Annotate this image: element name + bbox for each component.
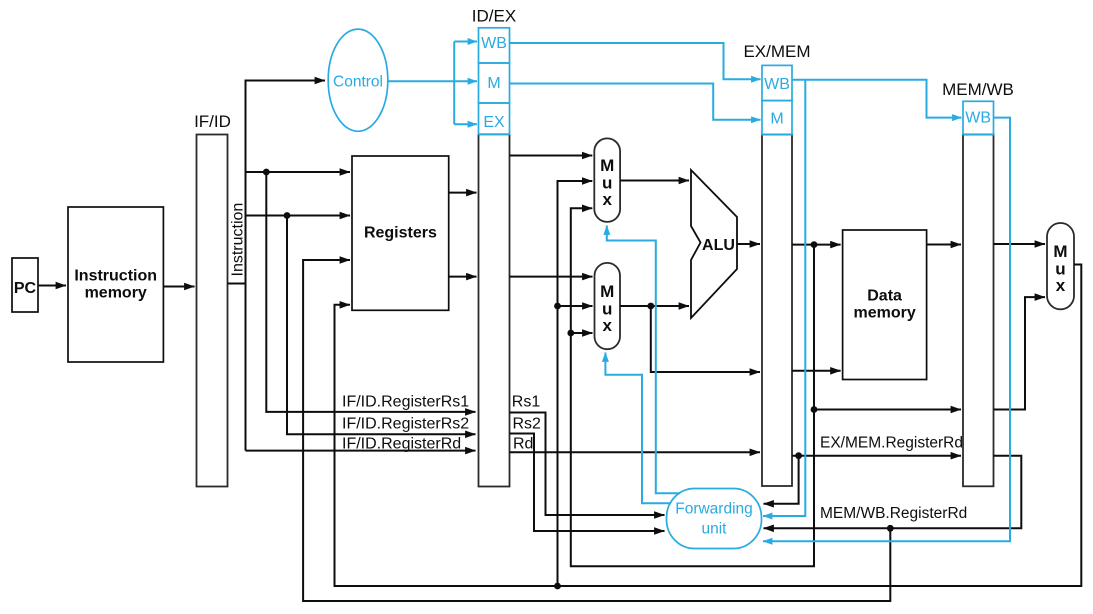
wire EX/MEM.RegisterRd to MEM/WB — [792, 455, 961, 457]
wire PC to instruction memory — [38, 285, 66, 287]
svg-text:M: M — [600, 156, 614, 175]
svg-text:MEM/WB.RegisterRd: MEM/WB.RegisterRd — [820, 505, 967, 522]
EX/MEM WB control box — [762, 65, 792, 100]
wire write-back feedback to mux M1 input 2 — [558, 181, 593, 586]
junction feedback to mux M2 input 3 tap — [567, 330, 574, 337]
svg-text:EX: EX — [483, 114, 505, 131]
wire control split vertical — [453, 42, 455, 125]
svg-text:IF/ID.RegisterRs2: IF/ID.RegisterRs2 — [342, 415, 469, 432]
EX/MEM pipeline register — [762, 135, 792, 486]
mux M3 (write-back) — [1047, 223, 1074, 309]
wire ID/EX M to EX/MEM M — [510, 84, 761, 120]
svg-text:Rs1: Rs1 — [512, 394, 541, 411]
svg-text:IF/ID.RegisterRd: IF/ID.RegisterRd — [342, 435, 461, 452]
svg-text:unit: unit — [702, 521, 728, 538]
wire Rs1 field to forwarding unit — [510, 413, 665, 516]
control unit oval — [328, 29, 388, 131]
wire ForwardB control to mux M2 — [605, 353, 671, 504]
svg-text:x: x — [1056, 276, 1066, 295]
svg-text:M: M — [770, 111, 783, 128]
MEM/WB WB control box — [963, 101, 994, 134]
svg-text:memory: memory — [853, 305, 915, 322]
junction EX/MEM.RegisterRd tap — [795, 452, 802, 459]
junction instruction rs1 tap — [263, 169, 270, 176]
junction EX/MEM ALU result tap — [811, 241, 818, 248]
svg-text:Instruction: Instruction — [229, 203, 246, 277]
wire EX/MEM ALU result to data memory — [792, 244, 841, 246]
svg-text:x: x — [602, 316, 612, 335]
wire MEM/WB ALU result to mux M3 — [994, 297, 1046, 409]
IF/ID pipeline register — [197, 135, 228, 487]
ID/EX M control box — [479, 63, 510, 103]
svg-text:memory: memory — [85, 285, 147, 302]
wire registers read data 1 to ID/EX — [449, 192, 477, 194]
svg-text:M: M — [1053, 242, 1067, 261]
wire control to ID/EX EX — [454, 123, 477, 125]
wire data memory read data to MEM/WB — [927, 244, 961, 246]
junction instruction rs2 tap — [284, 212, 291, 219]
wire ALU result feedback to mux M1 input 3 — [571, 208, 814, 566]
wire ID/EX to mux M1 input 1 — [510, 155, 593, 157]
PC box — [12, 258, 38, 312]
wire IF/ID.RegisterRs2 to ID/EX — [287, 216, 476, 435]
wire ForwardA control to mux M1 — [607, 226, 680, 494]
wire read register 1 — [246, 171, 351, 173]
svg-text:WB: WB — [764, 76, 790, 93]
registers box — [352, 156, 449, 310]
wire write-back mux output loop to registers write data — [335, 265, 1082, 587]
wire IF/ID.RegisterRs1 to ID/EX — [266, 172, 475, 412]
svg-text:IF/ID: IF/ID — [194, 112, 231, 131]
svg-text:Registers: Registers — [364, 225, 437, 242]
svg-text:IF/ID.RegisterRs1: IF/ID.RegisterRs1 — [342, 394, 469, 411]
svg-text:ID/EX: ID/EX — [472, 7, 516, 26]
ID/EX EX control box — [479, 103, 510, 134]
wire Rs2 field to forwarding unit — [510, 434, 665, 532]
svg-text:Forwarding: Forwarding — [675, 501, 753, 518]
svg-text:M: M — [487, 75, 500, 92]
mux M1 (ALU input A) — [594, 138, 620, 222]
wire EX/MEM.RegisterRd to forwarding unit — [764, 456, 799, 504]
svg-text:Control: Control — [333, 74, 383, 91]
svg-text:EX/MEM: EX/MEM — [743, 42, 810, 61]
wire registers read data 2 to ID/EX — [449, 276, 477, 278]
wire EX/MEM write data to data memory — [792, 370, 841, 372]
wire control to ID/EX M — [388, 80, 477, 82]
svg-text:Rd: Rd — [513, 435, 533, 452]
wire write register loop to registers — [303, 260, 890, 601]
svg-text:MEM/WB: MEM/WB — [942, 80, 1014, 99]
wire Rd field to EX/MEM — [510, 451, 761, 453]
wire instruction memory to IF/ID — [163, 286, 194, 288]
svg-text:M: M — [600, 282, 614, 301]
wire store data to EX/MEM — [651, 306, 760, 372]
svg-text:WB: WB — [481, 35, 507, 52]
forwarding unit — [667, 489, 762, 549]
wire ID/EX to mux M2 input 1 — [510, 276, 593, 278]
wire EX/MEM WB to MEM/WB WB — [792, 80, 962, 118]
junction write-back feedback tap — [554, 583, 561, 590]
svg-text:Data: Data — [867, 288, 902, 305]
MEM/WB pipeline register — [963, 135, 994, 487]
wire write-back feedback to mux M2 input 2 — [558, 305, 593, 307]
wire ALU result to EX/MEM — [737, 243, 760, 245]
data memory box — [843, 230, 927, 380]
ID/EX WB control box — [479, 28, 510, 63]
svg-text:WB: WB — [965, 110, 991, 127]
mux M2 (ALU input B) — [595, 263, 621, 349]
svg-text:Instruction: Instruction — [74, 268, 157, 285]
wire EX/MEM WB signal down to forwarding unit — [763, 80, 805, 516]
junction MEM/WB.RegisterRd tap — [887, 525, 894, 532]
svg-text:Rs2: Rs2 — [513, 415, 542, 432]
wire ALU result bypass to MEM/WB — [814, 409, 961, 411]
ALU — [691, 170, 737, 318]
junction ALU result bypass tap — [811, 406, 818, 413]
wire mux M1 to ALU — [620, 180, 689, 182]
wire MEM/WB.RegisterRd to forwarding unit — [764, 456, 1022, 529]
svg-text:EX/MEM.RegisterRd: EX/MEM.RegisterRd — [820, 434, 963, 451]
ID/EX pipeline register — [479, 134, 510, 486]
wire read register 2 — [246, 215, 351, 217]
wire instruction bus up to control — [246, 81, 326, 284]
wire IF/ID.RegisterRd to ID/EX — [246, 450, 476, 452]
wire ALU result feedback to mux M2 input 3 — [571, 332, 593, 334]
svg-text:x: x — [602, 190, 612, 209]
svg-text:PC: PC — [14, 280, 37, 297]
wire mux M2 to ALU — [620, 305, 689, 307]
junction mux M2 output store data tap — [647, 303, 654, 310]
wire MEM/WB read data to mux M3 — [994, 243, 1046, 245]
EX/MEM M control box — [762, 101, 792, 135]
wire MEM/WB WB signal down to forwarding unit — [763, 118, 1010, 542]
wire instruction bus out of IF/ID — [228, 284, 246, 451]
junction write-back to mux M2 input 2 tap — [554, 303, 561, 310]
wire control to ID/EX WB — [454, 41, 477, 43]
svg-text:ALU: ALU — [702, 237, 735, 254]
instruction memory box — [68, 207, 163, 362]
wire ID/EX WB to EX/MEM WB — [510, 43, 761, 79]
